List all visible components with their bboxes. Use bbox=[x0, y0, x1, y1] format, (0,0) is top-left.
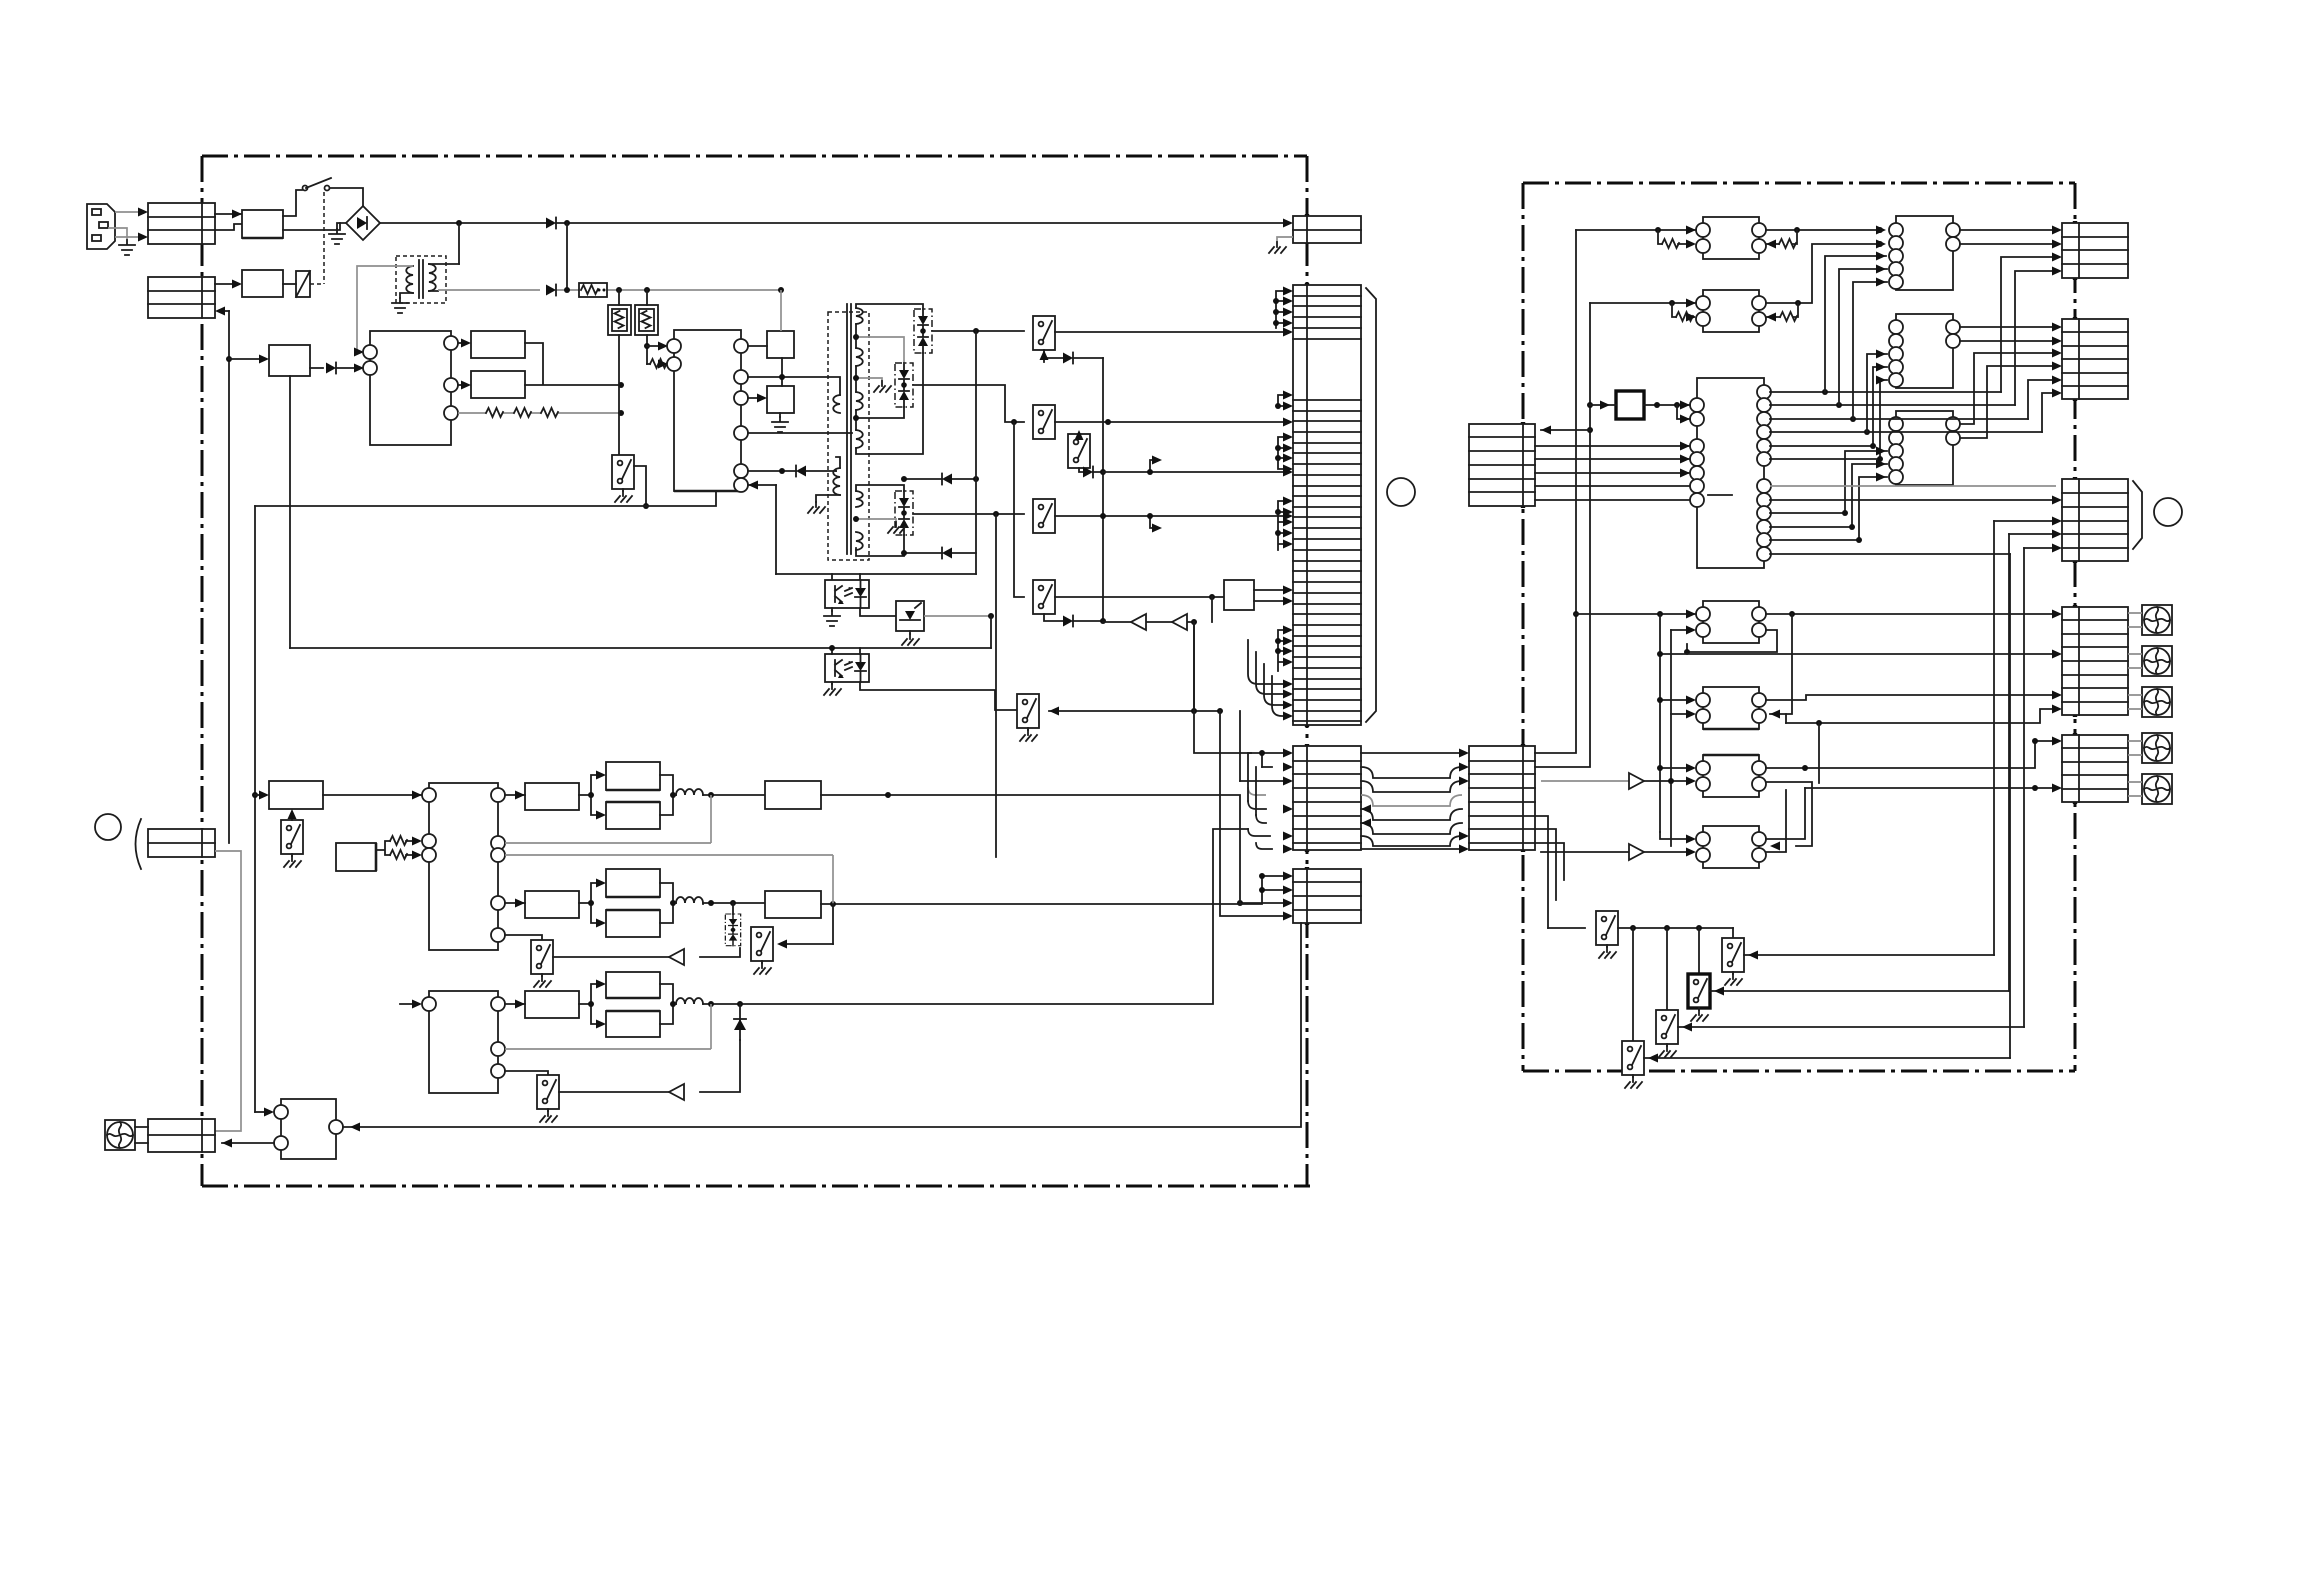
protector switch SW6 bbox=[1017, 694, 1039, 728]
inductor L1 bbox=[676, 789, 703, 795]
U2 sense with diode bbox=[748, 470, 836, 472]
PC2 ground bbox=[831, 682, 833, 684]
right board dash-dot border bbox=[1523, 183, 2075, 1071]
OP2 input resistor bbox=[1672, 303, 1694, 317]
primary lower connections bbox=[816, 457, 840, 502]
OP1 output net bbox=[1766, 229, 1880, 231]
snubber diode upper bbox=[904, 478, 976, 480]
CN1 cluster 5 bbox=[1275, 626, 1293, 672]
regulator switch SW2 bbox=[1033, 405, 1055, 439]
T1 primary winding lower bbox=[833, 468, 840, 495]
main transformer T1 dashed outline bbox=[828, 312, 869, 560]
SW5 feed vertical bbox=[1014, 422, 1024, 597]
switch S5 bbox=[1622, 1041, 1644, 1075]
op-amp pair OAL1 bbox=[1696, 601, 1766, 643]
BX riser bbox=[1211, 597, 1213, 622]
mixer IC M1 bbox=[1889, 216, 1960, 290]
lower secondary taps bbox=[856, 485, 904, 556]
DSP IC U20 bbox=[1690, 378, 1771, 568]
bracket right of CN-C bbox=[2133, 481, 2142, 549]
PC1 to shunt regulator bbox=[860, 608, 896, 616]
ZD1 bottom return bbox=[856, 353, 923, 454]
buffer rail down bbox=[1193, 622, 1195, 711]
center tap ground upper bbox=[856, 378, 882, 381]
DSP to mixer risers bbox=[1770, 391, 2001, 393]
U2 feedback pin wire bbox=[748, 484, 776, 486]
monitor return long wire bbox=[343, 923, 1301, 1127]
switch S3 bbox=[1688, 974, 1710, 1008]
vertical taps from B+ bbox=[459, 223, 567, 290]
connector CN1 body bbox=[1293, 285, 1361, 725]
wire FR2 to U2 pin1 bbox=[647, 345, 663, 347]
dual clamp diode DD2 bbox=[725, 914, 740, 946]
OAL2 feedback from OAL1 bbox=[1770, 614, 1792, 714]
snubber diode lower bbox=[904, 552, 976, 554]
connector J3 bbox=[148, 829, 215, 857]
fusible resistor FR2 bbox=[635, 305, 658, 335]
left board right border trunk (thick dash-dot through connectors) bbox=[1306, 156, 1309, 1186]
connector J4 bbox=[148, 1119, 215, 1152]
AC plug P1 bbox=[87, 204, 115, 249]
dual diode ZD2 bbox=[895, 363, 913, 407]
speaker fan SP1 bbox=[2142, 605, 2172, 635]
risers to CN-A rows 3-4 bbox=[2001, 257, 2056, 405]
switch SW8 bbox=[505, 935, 542, 940]
bracket at audio input bbox=[136, 819, 142, 869]
wire plug to CN J1 pin3 bbox=[115, 236, 140, 238]
op-amp pair OAL3 bbox=[1696, 755, 1766, 797]
connector CN2 body bbox=[1293, 746, 1361, 850]
CN1 curved feeds bbox=[1248, 640, 1293, 721]
switch S1 bbox=[1548, 927, 1585, 929]
SW3 up arrow to SW2 bbox=[1078, 433, 1080, 434]
connector CN-D bbox=[2062, 607, 2128, 715]
box B2 bbox=[471, 371, 525, 398]
boost diode row3 bbox=[734, 1004, 746, 1040]
link B3-B4 and to primary bbox=[748, 358, 840, 395]
wire into B0 bbox=[229, 358, 261, 360]
S1 distribution bus bbox=[1618, 927, 1733, 929]
SW0 side link to 506 rail bbox=[634, 466, 646, 506]
ZD3 output rail bbox=[913, 513, 1024, 515]
U2 drive to transformer bbox=[748, 432, 852, 434]
CN-E feed wires bbox=[1805, 787, 2056, 789]
PC2 stub to 648 rail bbox=[832, 648, 860, 654]
OAL1 feedback loop bbox=[1687, 630, 1777, 652]
buffer U11 bbox=[1172, 614, 1187, 630]
clock box bbox=[1616, 391, 1644, 419]
PC1 ground bbox=[831, 608, 833, 611]
row3 input stub bbox=[400, 1003, 415, 1005]
OP1 input wire bbox=[1576, 229, 1696, 231]
headphone amp U6 bbox=[274, 1099, 343, 1159]
CN1 cluster 2 bbox=[1275, 391, 1293, 411]
relay K1 bbox=[283, 271, 310, 297]
op-amp pair OP2 bbox=[1696, 290, 1766, 332]
OAL2 pin feeds bbox=[1660, 700, 1687, 714]
balloon ref circle near CN1 bbox=[1387, 478, 1415, 506]
balloon ref circle audio input bbox=[95, 814, 121, 840]
box B12 filter bbox=[765, 891, 821, 918]
CN1 cluster 3 bbox=[1275, 433, 1293, 474]
regulator switch SW5 bbox=[1033, 580, 1055, 614]
flag tap 1 bbox=[1150, 460, 1156, 472]
speaker fan SP2 bbox=[2142, 646, 2172, 676]
B0 bottom rail down bbox=[289, 376, 291, 648]
SW6 control wire bbox=[1049, 710, 1220, 712]
regulator switch SW3 bbox=[1068, 434, 1090, 468]
OAL4 pin feeds bbox=[1660, 832, 1687, 839]
op-amp pair OP1 bbox=[1696, 217, 1766, 259]
OAL1 output to CN-D bbox=[1766, 613, 2056, 615]
ZD1 output rail bbox=[932, 330, 1024, 332]
main B+ wire to CN0 bbox=[380, 222, 1285, 224]
gray 290 rail with fusible resistor bbox=[438, 289, 781, 291]
IC U1 power controller bbox=[363, 331, 458, 445]
secondary top tap to rectifier bbox=[856, 304, 923, 309]
B0 out diode to U1 bbox=[310, 367, 362, 369]
bias rail vertical bbox=[975, 331, 977, 574]
OAL1 input net bbox=[1576, 613, 1696, 615]
bus wire 472 to CN1 bbox=[1103, 471, 1285, 473]
fusible resistor R901 bbox=[579, 283, 607, 297]
PC2 output to SW6 bbox=[860, 682, 1017, 710]
regulator switch SW1 bbox=[1033, 316, 1055, 350]
connector CN-A bbox=[2062, 223, 2128, 278]
speaker fan SP4 bbox=[2142, 733, 2172, 763]
riser B tap to CN4 row1 bbox=[1541, 429, 1590, 431]
T0 right coil to B+ tap bbox=[429, 264, 459, 291]
OAL1 pin2 stub bbox=[1671, 629, 1687, 631]
OAL3 aux feedback bbox=[1766, 782, 1812, 846]
box B4 driver bbox=[767, 386, 794, 413]
switch SW7 bbox=[751, 927, 773, 961]
dual diode ZD1 bbox=[914, 309, 932, 353]
wire plug to CN J1 bbox=[115, 211, 140, 213]
microphone symbol bbox=[105, 1120, 135, 1150]
ground SW0 bbox=[622, 489, 624, 491]
wires U6 bbox=[255, 1111, 266, 1113]
speaker fan SP5 bbox=[2142, 774, 2172, 804]
switch S4 bbox=[1656, 1010, 1678, 1044]
mixer M2 outputs to CN-B bbox=[1960, 327, 2056, 341]
right board right border trunk bbox=[2074, 183, 2077, 1071]
ground at plug bbox=[108, 228, 127, 240]
T1 primary winding upper bbox=[833, 395, 840, 413]
left board dash-dot border bbox=[202, 156, 1310, 1186]
CN4 to DSP harness bbox=[1535, 446, 1691, 500]
SW5 output to reset box bbox=[1055, 596, 1224, 598]
rail x1220 down to CN3 bbox=[1220, 711, 1285, 916]
box B5 pre-driver bbox=[525, 783, 579, 810]
fuse F1 bbox=[242, 210, 283, 238]
relay switch SW0 bbox=[612, 455, 634, 489]
flag tap 2 bbox=[1150, 516, 1156, 528]
mute switch SWL bbox=[281, 820, 303, 854]
connector CN-C bbox=[2062, 479, 2128, 561]
output pair row2 bbox=[505, 869, 676, 937]
bold edge OAL2 bbox=[1703, 728, 1759, 731]
wire 290 rail into B3 bbox=[780, 290, 782, 331]
op-amp pair OAL4 bbox=[1696, 826, 1766, 868]
T1 secondary windings bbox=[856, 308, 863, 550]
common vertical J2 to J3 bbox=[228, 311, 230, 843]
optocoupler PC2 bbox=[825, 654, 869, 682]
rail 1103 bbox=[1102, 358, 1104, 622]
input riser A bbox=[1535, 230, 1576, 753]
right board left border trunk bbox=[1522, 183, 1525, 1071]
resistor to U2 pin2 bbox=[647, 363, 666, 365]
return wire J2 lower bbox=[223, 310, 229, 312]
CN3 feeds bbox=[1237, 872, 1293, 908]
wires U1 to B1/B2 bbox=[458, 342, 463, 344]
risers to CN-B rows 5-6 bbox=[2028, 380, 2056, 432]
buffer chain wire bbox=[1103, 621, 1194, 623]
gray wire T0 to U1 pin bbox=[357, 266, 413, 352]
BX outputs to CN1 bbox=[1254, 590, 1285, 601]
row1 output to CN3 bbox=[821, 795, 1240, 903]
OAL3 output net bbox=[1766, 741, 2056, 768]
dual diode ZD3 bbox=[895, 491, 913, 535]
fusible resistor FR1 bbox=[608, 305, 631, 335]
inductor L3 bbox=[676, 998, 703, 1004]
input riser B bbox=[1535, 303, 1590, 767]
DSP to CN-C wires bbox=[1770, 485, 2056, 487]
mixer M3 input risers bbox=[1770, 451, 1887, 513]
bracket right of CN1 bbox=[1366, 288, 1376, 722]
box B0 protection bbox=[269, 345, 310, 376]
buffer BF1 bbox=[1541, 780, 1629, 782]
connector CN3 body bbox=[1293, 869, 1361, 923]
OAL2 output to CN-D bbox=[1766, 695, 2056, 700]
line filter T0 bbox=[396, 256, 446, 303]
IC U2 switching regulator bbox=[667, 330, 748, 492]
IC U4 audio driver bbox=[422, 783, 505, 950]
row3 output long wire bbox=[703, 829, 1248, 1004]
506 rail bbox=[255, 491, 716, 506]
mixer IC M2 bbox=[1889, 314, 1960, 388]
switch SW9 bbox=[505, 1071, 548, 1075]
mixer IC M3 bbox=[1889, 411, 1960, 485]
connector CN5 bbox=[1469, 746, 1535, 850]
box A2 reference bbox=[336, 843, 376, 871]
connector J1 bbox=[148, 203, 215, 244]
T1 core bbox=[847, 304, 851, 554]
box A1 input amp bbox=[269, 781, 323, 809]
wire fuse to bridge bbox=[283, 223, 340, 230]
FR rails down bbox=[619, 290, 647, 455]
box B1 bbox=[471, 331, 525, 358]
bus 723 to CN-D row8 bbox=[1786, 709, 2056, 723]
speaker fan SP3 bbox=[2142, 687, 2172, 717]
OP2 input wire bbox=[1590, 302, 1696, 304]
T0 left coil to ground bbox=[400, 293, 413, 298]
CN5 row feeds down bbox=[1535, 816, 1564, 928]
pin feeder rail bbox=[1660, 614, 1671, 846]
wire J1 to fuse bbox=[215, 214, 242, 230]
wire J2 to standby box bbox=[215, 283, 234, 285]
box B8 filter bbox=[765, 781, 821, 809]
bus 654 to CN-D bbox=[1660, 653, 2056, 655]
connector CN-B bbox=[2062, 319, 2128, 399]
balloon ref circle right edge bbox=[2154, 498, 2182, 526]
bias rail horizontal bbox=[776, 573, 976, 575]
shunt output gray bbox=[924, 615, 991, 617]
OP2 feedback resistor bbox=[1766, 303, 1798, 317]
connector J2 bbox=[148, 277, 215, 318]
wire into A1 bbox=[255, 794, 261, 796]
SW5 tap diode bbox=[1044, 614, 1103, 621]
OP2 output to mixer bbox=[1766, 244, 1880, 303]
buffer feedback row3 bbox=[559, 1040, 740, 1092]
reset box BX bbox=[1224, 580, 1254, 610]
SW6 ground bbox=[1027, 728, 1029, 730]
output pair row3 bbox=[505, 972, 676, 1037]
standby transformer box bbox=[242, 270, 283, 297]
op-amp pair OAL2 bbox=[1696, 687, 1766, 729]
SW3 tap diode bbox=[1079, 468, 1103, 472]
buffer U10 bbox=[1131, 614, 1146, 630]
mixer M3 outputs risers to CN-B bbox=[1960, 353, 2056, 438]
shunt regulator IC3 bbox=[896, 601, 924, 634]
optocoupler PC1 bbox=[825, 580, 869, 608]
switch S901 bbox=[283, 178, 363, 216]
connector CN-E bbox=[2062, 735, 2128, 802]
CN1 cluster 4 bbox=[1275, 497, 1293, 551]
A2 resistors to U4 bbox=[376, 841, 414, 855]
gray feedback row2 bbox=[505, 855, 833, 904]
buffer BF2 bbox=[1541, 851, 1629, 853]
ZD2 output to SW2 bbox=[913, 385, 1024, 422]
OP1 input resistor bbox=[1658, 230, 1688, 244]
rail x996 down bbox=[995, 514, 997, 857]
OAL3 pin feeds bbox=[1660, 767, 1687, 769]
wires U2 to drivers bbox=[748, 346, 767, 398]
bridge rectifier D901 bbox=[346, 206, 380, 240]
SW2 output to CN1 bbox=[1055, 421, 1285, 423]
ZD2 bottom return bbox=[856, 407, 904, 418]
CN2 right S-curves to CN5 bbox=[1361, 749, 1469, 854]
SW1 tap diode bbox=[1044, 350, 1103, 362]
ground B4 bbox=[779, 413, 781, 417]
gray feedback row1 bbox=[505, 795, 711, 843]
IC U5 audio driver 2 bbox=[422, 991, 505, 1093]
CN-C feed risers down bbox=[1994, 521, 2056, 548]
mixer M1 outputs to CN-A bbox=[1960, 230, 2056, 244]
gray feedback resistor chain bbox=[458, 412, 621, 414]
connector CN0 bbox=[1293, 216, 1361, 243]
buffer feedback row2 bbox=[553, 948, 740, 957]
CN1 top feed cluster bbox=[1273, 287, 1293, 329]
shunt rail down bbox=[990, 616, 992, 648]
tap2 to ZD2 bbox=[856, 337, 904, 363]
OP1 feedback resistor bbox=[1766, 230, 1797, 244]
SW1 output to CN1 bbox=[1055, 331, 1285, 333]
inductor L2 bbox=[676, 897, 703, 903]
main audio rail vertical bbox=[254, 506, 256, 1112]
center tap ground lower bbox=[856, 519, 896, 522]
clock wiring bbox=[1590, 404, 1616, 406]
box B3 driver bbox=[767, 331, 794, 358]
648 rail bbox=[290, 647, 991, 649]
wire A1 to U4 bbox=[323, 794, 421, 796]
opto stubs to bias bbox=[832, 574, 860, 580]
row2 output to CN3 bbox=[821, 890, 1262, 904]
ground gray stub into CN0 bbox=[1277, 237, 1293, 242]
ground at bridge bbox=[337, 223, 346, 229]
dashed actuator link bbox=[310, 192, 324, 284]
OAL4 output to CN-E bbox=[1766, 788, 1805, 852]
switch S2 bbox=[1722, 938, 1744, 972]
output pair row1 bbox=[579, 762, 676, 829]
SW4 output to CN1 bbox=[1055, 515, 1285, 517]
CN2 left feeds bbox=[1194, 622, 1293, 854]
connector CN4 bbox=[1469, 424, 1535, 506]
regulator switch SW4 bbox=[1033, 499, 1055, 533]
feedback riser bbox=[775, 485, 777, 574]
gray feedback row3 bbox=[505, 1004, 711, 1049]
gray return J3 to J4 bbox=[215, 851, 241, 1131]
